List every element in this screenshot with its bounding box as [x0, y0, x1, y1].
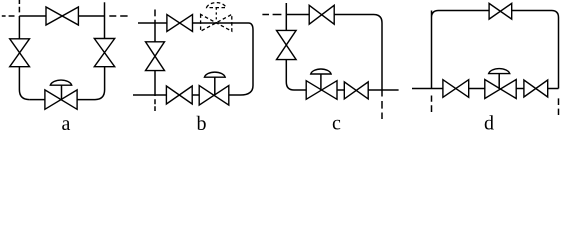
wire c top-right with corner arc: [334, 15, 382, 24]
valve V5 (b left): [146, 42, 165, 71]
stem CV1: [61, 85, 63, 99]
stem CV5: [498, 74, 500, 89]
svg-text:a: a: [62, 113, 71, 133]
actuator dome CV2 dashed: [207, 3, 226, 8]
wire c bottom-left horizontal: [294, 89, 306, 91]
valve V6 (b bottom): [166, 86, 192, 104]
stem CV2 dashed: [215, 8, 217, 23]
wire b bottom middle: [192, 94, 199, 96]
node C-top stub up: [285, 3, 287, 15]
svg-text:d: d: [484, 113, 494, 134]
wire c left vertical upper: [285, 15, 287, 31]
wire b bottom-right horizontal: [229, 94, 241, 96]
actuator dome CV3: [204, 72, 225, 77]
actuator dome CV4: [311, 69, 331, 74]
wire a bottom-right horizontal: [77, 99, 95, 101]
wire b top middle: [193, 22, 249, 24]
control valve CV1 (a bottom): [45, 90, 77, 109]
svg-text:b: b: [197, 113, 207, 133]
wire a top-right horizontal: [78, 15, 104, 17]
wire d top-right with corner arc: [512, 11, 559, 18]
wire c bottom middle: [337, 89, 344, 91]
wire a left vertical upper: [18, 16, 20, 39]
node A-outlet dash-dot right: [109, 15, 127, 17]
control valve CV4 (c bottom): [306, 81, 337, 100]
node C-bottom dash-dot down: [381, 101, 383, 119]
node D-left dash-dot down: [431, 96, 433, 113]
wire b top-right with corner arc: [249, 23, 254, 30]
wire c bottom-right stub: [368, 89, 398, 91]
wire d bottom middle-right: [516, 88, 524, 90]
node A-top dash-dot up: [18, 0, 20, 12]
wire a top-left horizontal: [19, 15, 46, 17]
valve V11 (d bottom left): [443, 80, 469, 98]
wire b bottom-left stub: [133, 94, 166, 96]
valve V1 (a top): [46, 7, 78, 25]
wire a left vertical lower with corner arc: [19, 67, 29, 100]
wire d bottom middle-left: [469, 88, 485, 90]
wire d bottom-left stub: [412, 88, 443, 90]
stem CV3: [214, 77, 216, 95]
wire b left vertical lower: [154, 71, 156, 96]
wire c left vertical lower with corner arc: [286, 60, 294, 90]
wire a right vertical upper: [104, 16, 106, 39]
valve V3 (a right): [94, 39, 114, 67]
wire b top-left stub: [138, 22, 167, 24]
node B-bottom dash-dot down: [154, 99, 156, 111]
valve V8 (c left): [277, 30, 297, 59]
node A-inlet dash-dot left: [2, 15, 15, 17]
node D-right dash-dot down: [558, 98, 560, 115]
wire d top with corner arcs: [432, 11, 490, 18]
wire b bottom-right corner arc: [241, 86, 254, 96]
actuator dome CV1: [50, 80, 71, 85]
wire a right vertical lower with corner arc: [95, 67, 105, 100]
wire b left vertical upper: [154, 20, 156, 42]
valve V12 (d bottom right): [524, 80, 548, 97]
control valve CV3 (b bottom): [199, 86, 229, 106]
valve V10 (d top): [489, 3, 512, 19]
svg-text:c: c: [332, 113, 341, 134]
stem CV4: [320, 74, 322, 90]
wire d bottom-right horizontal: [548, 88, 559, 90]
wire d left vertical: [431, 18, 433, 89]
valve V7 (c top): [309, 5, 334, 24]
node C-inlet dash-dot left: [262, 14, 281, 16]
valve V2 (a left): [10, 39, 30, 67]
valve V9 (c bottom right): [344, 82, 368, 99]
actuator dome CV5: [489, 69, 510, 74]
wire c right vertical: [381, 23, 383, 97]
wire d right vertical: [558, 18, 560, 89]
wire c top-left horizontal: [286, 14, 309, 16]
wire a bottom-left horizontal: [29, 99, 45, 101]
control valve CV5 (d bottom): [485, 80, 516, 99]
wire b right vertical: [252, 30, 254, 86]
node A-top-right stub up: [104, 2, 106, 16]
control valve CV2 dashed (b top, future): [201, 14, 232, 31]
node B-top dash-dot up: [154, 10, 156, 17]
valve V4 (b top): [167, 15, 193, 32]
